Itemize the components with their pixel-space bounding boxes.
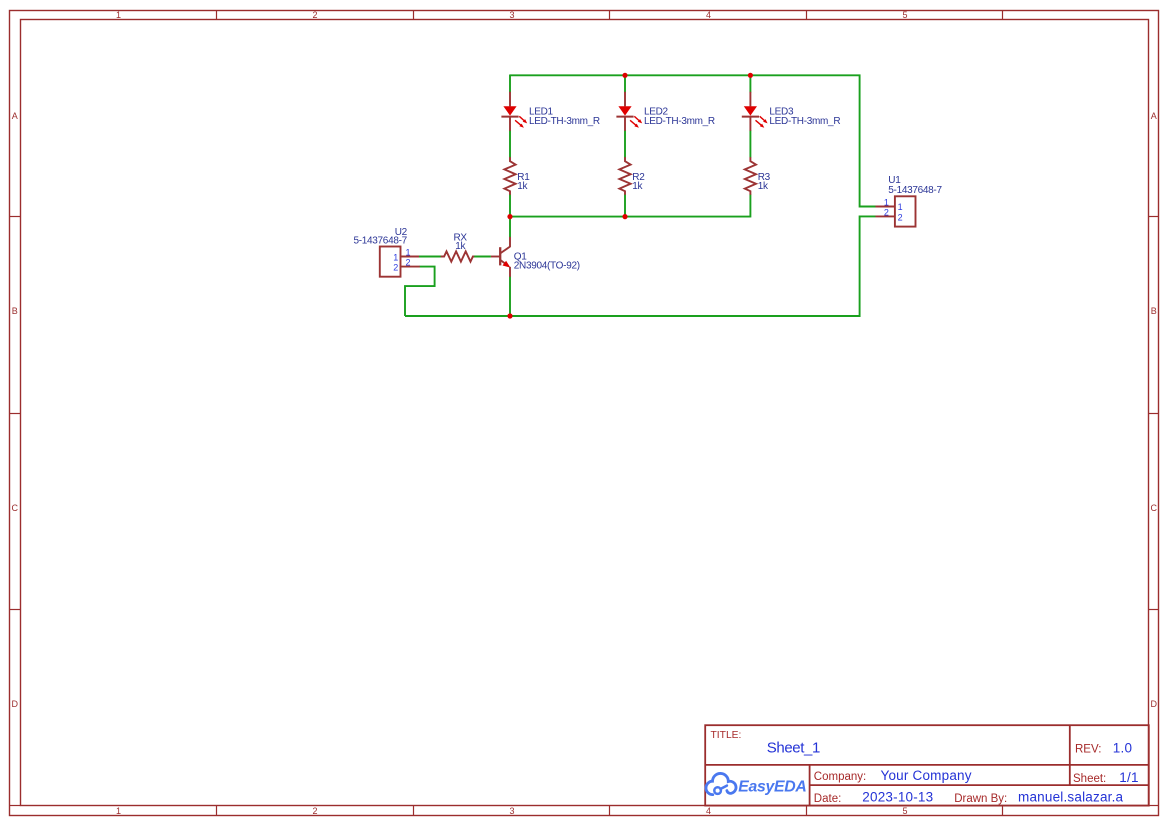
svg-text:B: B [12, 306, 18, 316]
svg-text:4: 4 [706, 10, 711, 20]
wire bottom return rail to U1 pin 2 [405, 216, 876, 316]
svg-text:REV:: REV: [1075, 743, 1101, 755]
title block [705, 725, 1149, 805]
svg-text:1: 1 [116, 806, 121, 816]
U1 pin 1 [876, 206, 895, 208]
svg-text:1.0: 1.0 [1113, 740, 1132, 755]
svg-text:LED-TH-3mm_R: LED-TH-3mm_R [644, 116, 715, 127]
svg-text:1: 1 [116, 10, 121, 20]
svg-text:A: A [1151, 111, 1157, 121]
junction bottom rail / emitter [507, 313, 512, 318]
svg-text:manuel.salazar.a: manuel.salazar.a [1018, 790, 1124, 805]
LED LED2 (LED-TH-3mm_R) [616, 92, 642, 131]
LED LED3 (LED-TH-3mm_R) [742, 92, 768, 131]
svg-text:Your Company: Your Company [881, 768, 972, 783]
svg-text:2: 2 [406, 258, 411, 268]
svg-text:1: 1 [406, 248, 411, 258]
svg-text:5-1437648-7: 5-1437648-7 [888, 185, 942, 196]
svg-text:3: 3 [509, 806, 514, 816]
svg-text:1k: 1k [517, 181, 528, 192]
LED LED1 (LED-TH-3mm_R) [501, 92, 527, 131]
svg-text:2: 2 [393, 263, 398, 273]
svg-text:1k: 1k [758, 181, 769, 192]
resistor R1 [504, 157, 515, 195]
svg-text:4: 4 [706, 806, 711, 816]
wire R3 bottom stub [749, 194, 751, 217]
svg-text:Sheet_1: Sheet_1 [767, 739, 820, 756]
svg-text:1: 1 [393, 252, 398, 262]
resistor RX [441, 251, 475, 261]
junction top bus / LED3 [748, 73, 753, 78]
svg-text:Date:: Date: [814, 793, 842, 805]
wire R1 bottom through node to Q1 collector [509, 194, 511, 237]
svg-text:LED-TH-3mm_R: LED-TH-3mm_R [529, 116, 600, 127]
wire RX to Q1 base [474, 256, 491, 258]
svg-text:TITLE:: TITLE: [711, 730, 742, 741]
svg-text:2: 2 [312, 10, 317, 20]
junction middle bus / R1-collector [507, 214, 512, 219]
svg-text:Sheet:: Sheet: [1073, 773, 1106, 785]
svg-text:B: B [1151, 306, 1157, 316]
svg-text:D: D [1151, 699, 1158, 709]
svg-text:Drawn By:: Drawn By: [954, 793, 1007, 805]
svg-text:2: 2 [898, 212, 903, 222]
wire LED3 cathode to R3 [749, 130, 751, 157]
U2 pin 2 [401, 266, 420, 268]
svg-text:5-1437648-7: 5-1437648-7 [353, 236, 407, 247]
svg-text:2N3904(TO-92): 2N3904(TO-92) [514, 261, 580, 272]
svg-text:2: 2 [884, 208, 889, 218]
wire top supply bus from LED1 anode to U1 pin 1 [510, 75, 876, 206]
svg-text:1/1: 1/1 [1119, 770, 1138, 785]
EasyEDA logo cloud icon [706, 773, 736, 794]
connector U2 body [380, 247, 401, 277]
svg-text:Company:: Company: [814, 771, 866, 783]
svg-text:A: A [12, 111, 18, 121]
wire middle bus joining R1 R2 R3 bottoms [510, 216, 750, 218]
svg-text:3: 3 [509, 10, 514, 20]
junction middle bus / R2 [622, 214, 627, 219]
junction top bus / LED2 [622, 73, 627, 78]
wire U2 pin 1 to RX [419, 256, 442, 258]
wire LED1 cathode to R1 [509, 130, 511, 157]
resistor R3 [745, 157, 756, 195]
wire LED2 anode stub [624, 75, 626, 93]
svg-text:D: D [12, 699, 19, 709]
svg-text:C: C [12, 503, 19, 513]
wire LED1 anode stub [509, 75, 511, 93]
svg-text:2023-10-13: 2023-10-13 [862, 790, 933, 805]
wire U2 pin 2 jog to bottom rail [405, 267, 435, 316]
wire LED2 cathode to R2 [624, 130, 626, 157]
U2 pin 1 [401, 256, 420, 258]
svg-text:1k: 1k [455, 241, 466, 252]
svg-text:LED-TH-3mm_R: LED-TH-3mm_R [769, 116, 840, 127]
transistor Q1 2N3904 [491, 237, 511, 277]
svg-text:1: 1 [898, 202, 903, 212]
wire Q1 emitter to bottom rail [509, 276, 511, 316]
svg-text:C: C [1151, 503, 1158, 513]
svg-text:2: 2 [312, 806, 317, 816]
svg-text:5: 5 [902, 806, 907, 816]
svg-text:5: 5 [902, 10, 907, 20]
svg-text:1k: 1k [632, 181, 643, 192]
wire LED3 anode stub [749, 75, 751, 93]
wire R2 bottom stub [624, 194, 626, 216]
U1 pin 2 [876, 215, 895, 217]
svg-text:1: 1 [884, 198, 889, 208]
connector U1 body [895, 196, 916, 226]
svg-text:EasyEDA: EasyEDA [738, 779, 806, 796]
resistor R2 [619, 157, 630, 195]
